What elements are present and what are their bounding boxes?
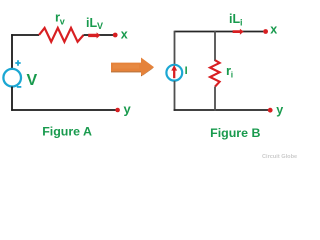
current source arrow [173, 70, 175, 78]
node y (Figure A) [115, 108, 120, 113]
svg-text:x: x [121, 28, 128, 42]
svg-text:iL: iL [229, 12, 240, 26]
node x (Figure B) [263, 29, 268, 34]
current source I [166, 65, 182, 81]
node x (Figure A) [113, 33, 118, 38]
wire resistor to node x [84, 34, 114, 36]
svg-text:I: I [185, 65, 188, 77]
wire top horizontal [175, 31, 264, 33]
voltage source V [3, 69, 21, 87]
svg-text:x: x [270, 22, 277, 36]
svg-text:V: V [27, 72, 38, 89]
wire middle branch upper [214, 31, 216, 61]
wire left vertical lower [174, 81, 176, 111]
wire left vertical upper [174, 31, 176, 64]
current arrow iLv [88, 32, 100, 38]
svg-text:i: i [231, 70, 233, 80]
current arrow iLi [233, 29, 244, 35]
wire source bottom to corner [11, 87, 13, 111]
svg-text:i: i [240, 17, 243, 27]
svg-text:y: y [124, 101, 132, 116]
wire middle branch lower [214, 87, 216, 111]
svg-text:y: y [276, 103, 283, 117]
minus sign [17, 86, 22, 88]
wire left vertical (corner to source top) [11, 34, 13, 69]
svg-text:Circuit Globe: Circuit Globe [262, 154, 297, 160]
svg-text:v: v [60, 16, 65, 26]
plus sign [15, 60, 20, 65]
wire bottom horizontal to node y [174, 109, 269, 111]
wire bottom horizontal to node y [11, 109, 116, 111]
resistor Rv [39, 28, 84, 42]
svg-text:Figure B: Figure B [210, 126, 260, 140]
resistor ri [210, 60, 220, 86]
svg-text:iL: iL [86, 16, 97, 30]
node y (Figure B) [268, 108, 273, 113]
svg-text:V: V [97, 21, 103, 31]
svg-text:Figure A: Figure A [42, 125, 92, 139]
wire top-left horizontal (corner to resistor) [11, 34, 39, 36]
